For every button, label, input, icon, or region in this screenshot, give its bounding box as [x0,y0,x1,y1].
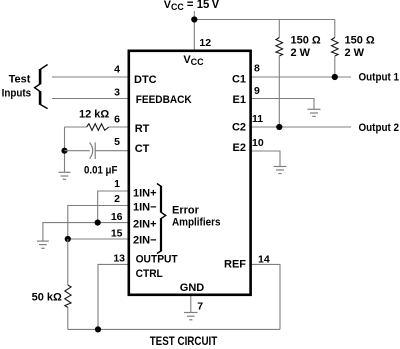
svg-text:7: 7 [197,300,203,312]
svg-text:14: 14 [258,254,270,266]
svg-text:0.01 μF: 0.01 μF [84,164,118,176]
svg-text:11: 11 [252,113,263,125]
ground at pin 7 [184,313,198,320]
wire pin 4 DTC [52,76,129,78]
wire pin 14 REF down to bottom rail [251,264,280,329]
wire pin 13 down to bottom rail [98,264,129,329]
svg-text:GND: GND [180,282,205,294]
wire R1 bottom lead down to C2 line [278,56,280,127]
op-amp U1 IC box [129,51,251,295]
svg-text:10: 10 [252,137,264,149]
svg-text:C1: C1 [232,73,246,85]
wire pin 6 RT right lead [109,126,129,128]
svg-text:16: 16 [111,211,123,223]
svg-text:E2: E2 [233,142,246,154]
node junction dot R2/C1 [332,74,338,80]
wire pin 10 E2 [251,151,280,167]
ground at E2 [274,167,287,174]
wire pin 15 [68,238,129,240]
svg-text:2: 2 [114,193,120,205]
svg-text:15: 15 [111,227,123,239]
svg-text:Output 2: Output 2 [359,122,400,134]
brace for test inputs [35,65,48,109]
svg-text:2IN+: 2IN+ [133,219,157,231]
node junction dot R1/C2 [276,124,282,130]
svg-text:1IN−: 1IN− [133,202,157,214]
svg-text:9: 9 [254,85,260,97]
svg-text:E1: E1 [233,94,246,106]
svg-text:Error: Error [172,204,200,216]
resistor 12 kohm [87,124,109,131]
svg-text:FEEDBACK: FEEDBACK [136,94,192,106]
wire CT right lead [95,150,129,152]
wire pin 3 FEEDBACK [52,98,129,100]
wire 50k top lead [67,239,69,285]
svg-text:Inputs: Inputs [2,88,32,100]
svg-text:C2: C2 [232,122,246,134]
svg-text:1: 1 [114,178,120,190]
wire pin 2 to pin 15 line [68,206,129,240]
capacitor 0.01 uF [90,143,93,159]
svg-text:DTC: DTC [134,74,157,86]
wire VCC top rail [194,19,334,21]
svg-text:RT: RT [135,123,150,135]
node VCC junction dot [191,16,197,22]
wire bottom rail [68,328,280,330]
svg-text:CT: CT [135,143,150,155]
wire pin 8 C1 to Output 1 [251,76,351,78]
svg-text:Output 1: Output 1 [359,72,400,84]
svg-text:4: 4 [114,64,120,76]
svg-text:2IN−: 2IN− [133,234,157,246]
wire pin 16 to ground [43,223,129,242]
wire pin 7 GND stub [190,295,192,313]
wire 50k bottom lead [67,307,69,329]
svg-text:TEST CIRCUIT: TEST CIRCUIT [150,336,218,348]
svg-text:12 kΩ: 12 kΩ [79,109,109,121]
svg-text:REF: REF [224,259,246,271]
svg-text:Test: Test [9,74,31,86]
node junction dot pin13/rail [95,326,101,332]
svg-text:VCC: VCC [183,54,204,67]
svg-text:2 W: 2 W [345,47,365,59]
resistor 50 kohm [65,285,71,308]
wire VCC stub down to pin 12 [193,11,195,51]
wire R1 top lead [278,20,280,38]
svg-text:1IN+: 1IN+ [133,187,157,199]
wire R2 top lead [334,20,336,38]
node junction dot pin1/pin16 [95,220,101,226]
wire CT left lead [65,150,90,152]
svg-text:8: 8 [254,63,260,75]
wire R2 bottom lead down to C1 line [334,56,336,77]
ground at RT/CT [59,172,71,179]
wire pin 11 C2 to Output 2 [251,126,351,128]
svg-text:6: 6 [114,113,120,125]
wire pin 1 to pin 16 line [98,191,129,223]
svg-text:OUTPUT: OUTPUT [136,254,178,266]
svg-text:VCC = 15 V: VCC = 15 V [164,0,220,12]
resistor R1 150 ohm 2 W (left) [276,38,283,57]
wire vertical RT-CT to ground [64,127,66,172]
svg-text:50 kΩ: 50 kΩ [32,292,62,304]
svg-text:Amplifiers: Amplifiers [172,216,221,228]
svg-text:5: 5 [114,136,120,148]
wire pin 9 E1 [251,99,314,110]
brace error amplifiers [157,184,166,254]
ground at pin 16 [37,241,49,248]
svg-text:2 W: 2 W [291,47,311,59]
ground at E1 [308,109,321,116]
svg-text:CTRL: CTRL [136,268,163,280]
svg-text:150 Ω: 150 Ω [291,35,321,47]
node junction dot pin2/pin15 [65,236,71,242]
svg-text:150 Ω: 150 Ω [345,35,375,47]
wire pin 6 RT left lead [65,126,87,128]
node junction dot at CT [61,148,67,154]
svg-text:13: 13 [113,253,125,265]
svg-text:3: 3 [114,86,120,98]
svg-text:12: 12 [199,37,211,49]
resistor R2 150 ohm 2 W (right) [332,38,339,57]
